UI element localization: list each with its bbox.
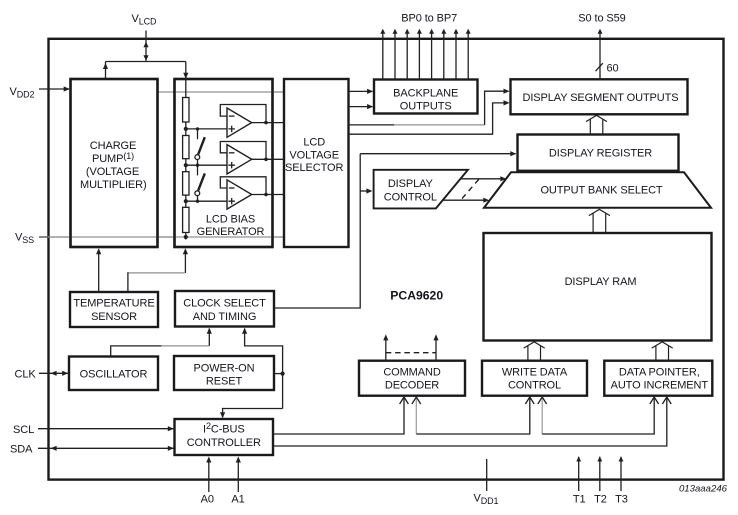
wire POR right link — [274, 373, 283, 375]
node ladder tap 2 wire — [186, 164, 227, 166]
junction dot tap2 — [184, 163, 188, 167]
wire A1 input — [236, 457, 241, 493]
wire selector to segment outputs 1 — [349, 89, 510, 125]
svg-text:POWER-ON: POWER-ON — [194, 362, 255, 374]
dashed arrows command decoder up 1 — [383, 334, 388, 360]
svg-text:S0 to S59: S0 to S59 — [578, 12, 625, 24]
svg-text:LCD: LCD — [303, 137, 325, 149]
svg-text:BACKPLANE: BACKPLANE — [393, 87, 458, 99]
dashed bus marker display control — [460, 179, 479, 201]
svg-text:COMMAND: COMMAND — [383, 367, 441, 379]
node ladder tap 3 wire — [186, 200, 227, 202]
wire VSS rail (gray) — [39, 236, 284, 238]
switch S1 — [195, 129, 205, 165]
svg-text:DATA POINTER,: DATA POINTER, — [619, 367, 700, 379]
wire oscillator to clock select — [111, 328, 212, 357]
svg-text:DECODER: DECODER — [385, 380, 439, 392]
wire POR to I2C controller — [220, 409, 283, 419]
svg-text:(VOLTAGE: (VOLTAGE — [86, 166, 139, 178]
wire clock select to vertical riser — [274, 154, 360, 308]
LCD voltage selector block — [284, 79, 349, 247]
wire SDA double arrow — [38, 446, 174, 451]
junction dot switch2 bottom — [196, 200, 199, 203]
wire A0 input — [206, 457, 211, 493]
svg-text:LCD BIAS: LCD BIAS — [206, 213, 255, 225]
wire temp sensor to charge pump — [96, 248, 101, 292]
wire VLCD into bias ladder — [183, 62, 188, 98]
wire VSS label stub — [39, 236, 48, 238]
backplane output arrows BP0-BP7 — [380, 29, 470, 80]
svg-text:TEMPERATURE: TEMPERATURE — [73, 298, 154, 310]
svg-text:MULTIPLIER): MULTIPLIER) — [80, 179, 147, 191]
temperature sensor block — [70, 292, 158, 327]
charge pump border restroke — [71, 79, 158, 247]
wire charge pump to VLCD — [103, 62, 108, 80]
I2C-bus controller block — [175, 419, 274, 455]
display register block — [518, 135, 679, 171]
wire selector to backplane 1 — [349, 89, 374, 94]
wire SCL — [38, 426, 174, 431]
wire ladder R2-R3 — [185, 159, 187, 172]
bus write data to data pointer — [538, 397, 659, 434]
junction dot tap1 — [184, 127, 188, 131]
wire T1 input — [576, 456, 581, 491]
junction dot tap3 — [184, 199, 188, 203]
bus I2C lower to data pointer — [273, 397, 671, 446]
svg-text:VOLTAGE: VOLTAGE — [289, 149, 339, 161]
svg-text:RESET: RESET — [206, 376, 243, 388]
junction dot U2 out — [264, 121, 268, 125]
open arrow RAM to bank select — [589, 209, 610, 233]
svg-text:CONTROL: CONTROL — [384, 191, 437, 203]
wire riser to display register — [360, 151, 516, 156]
wire selector to segment outputs 2 — [349, 100, 510, 134]
wire ladder R4 to VSS — [185, 233, 187, 240]
junction dot ladder-VSS — [184, 235, 188, 239]
svg-text:SENSOR: SENSOR — [91, 311, 137, 323]
output bank select trapezoid — [484, 172, 711, 208]
dashed arrows command decoder up 2 — [433, 334, 438, 360]
svg-text:OSCILLATOR: OSCILLATOR — [80, 368, 148, 380]
display segment outputs block — [511, 79, 688, 114]
svg-text:CONTROLLER: CONTROLLER — [187, 437, 261, 449]
resistor R3 — [183, 172, 189, 195]
svg-text:GENERATOR: GENERATOR — [197, 226, 265, 238]
wire VDD2 rail (gray) — [158, 91, 285, 93]
resistor R2 — [183, 136, 189, 159]
wire VSS rail inside boxes (gray) — [50, 236, 283, 238]
backplane outputs block — [374, 80, 478, 114]
svg-text:T3: T3 — [615, 494, 628, 506]
wire display control to bank select lower — [443, 198, 490, 203]
wire selector to backplane 2 — [349, 104, 374, 109]
wire VDD1 stub — [486, 459, 488, 491]
LCD bias generator block — [175, 79, 273, 247]
junction dot switch1 top — [196, 127, 199, 130]
op-amp U2 buffer1 — [220, 105, 284, 138]
segment output arrow S0-S59 — [598, 29, 603, 80]
svg-text:SCL: SCL — [13, 424, 34, 436]
open arrow data pointer to RAM — [652, 342, 673, 361]
svg-text:WRITE DATA: WRITE DATA — [502, 367, 568, 379]
switch S2 — [195, 165, 205, 201]
svg-text:AUTO INCREMENT: AUTO INCREMENT — [611, 380, 709, 392]
svg-text:OUTPUTS: OUTPUTS — [400, 100, 452, 112]
clock select and timing block — [175, 291, 274, 327]
data pointer auto increment block — [604, 361, 712, 396]
svg-text:A0: A0 — [201, 494, 214, 506]
wire ladder R3-R4 — [185, 195, 187, 207]
svg-text:DISPLAY RAM: DISPLAY RAM — [565, 276, 637, 288]
wire VLCD stub through border — [143, 31, 148, 62]
resistor R4 — [183, 207, 189, 232]
svg-text:DISPLAY SEGMENT OUTPUTS: DISPLAY SEGMENT OUTPUTS — [522, 92, 678, 104]
wire temp sensor to bias generator — [128, 248, 188, 292]
junction dot U3 out — [264, 158, 268, 162]
junction dot U4 out — [264, 193, 268, 197]
svg-text:CLOCK SELECT: CLOCK SELECT — [183, 298, 266, 310]
display RAM block — [484, 233, 712, 341]
bus command decoder to write data — [412, 397, 534, 434]
svg-text:013aaa246: 013aaa246 — [679, 484, 728, 495]
svg-text:DISPLAY REGISTER: DISPLAY REGISTER — [549, 148, 652, 160]
outer border — [49, 39, 724, 480]
power-on reset block — [174, 356, 274, 390]
wire ladder R1-R2 — [185, 122, 187, 136]
svg-text:A1: A1 — [231, 494, 244, 506]
bus I2C to command decoder — [273, 397, 408, 434]
charge pump U1 — [71, 79, 158, 247]
display control block — [374, 170, 468, 209]
bias generator border restroke — [175, 79, 273, 247]
bus width slash 60 — [596, 63, 603, 71]
svg-text:BP0 to BP7: BP0 to BP7 — [401, 12, 457, 24]
op-amp U3 buffer2 — [220, 142, 284, 175]
svg-text:PCA9620: PCA9620 — [390, 289, 443, 303]
svg-text:DISPLAY: DISPLAY — [388, 178, 434, 190]
svg-text:SDA: SDA — [10, 443, 33, 455]
wire display control to bank select upper — [460, 176, 506, 181]
oscillator block — [69, 357, 158, 391]
svg-text:T1: T1 — [573, 494, 586, 506]
node ladder tap 1 wire — [186, 128, 227, 130]
junction dot POR link — [281, 372, 285, 376]
svg-text:SELECTOR: SELECTOR — [285, 162, 343, 174]
wire POR to clock select — [242, 328, 283, 409]
wire T3 input — [619, 456, 624, 491]
command decoder block — [359, 361, 465, 396]
dashed link above command decoder — [386, 352, 436, 354]
op-amp U4 buffer3 — [220, 177, 284, 209]
wire VDD2 input arrow — [39, 86, 70, 91]
svg-text:60: 60 — [607, 63, 619, 75]
junction dot switch joint mid — [196, 164, 199, 167]
svg-text:AND TIMING: AND TIMING — [193, 311, 257, 323]
resistor R1 — [183, 98, 189, 123]
wire T2 input — [597, 456, 602, 491]
wire VDD2 rail inside bias box (gray) — [176, 91, 283, 93]
open arrow write data to RAM — [524, 342, 545, 361]
svg-text:T2: T2 — [594, 494, 607, 506]
wire riser to display control — [360, 188, 372, 193]
svg-text:CONTROL: CONTROL — [508, 380, 561, 392]
svg-text:OUTPUT BANK SELECT: OUTPUT BANK SELECT — [540, 185, 662, 197]
wire VLCD horizontal — [106, 61, 186, 63]
wire CLK double arrow — [39, 371, 68, 376]
write data control block — [482, 361, 587, 396]
svg-text:CLK: CLK — [15, 368, 37, 380]
open arrow register to segment outputs — [586, 115, 607, 134]
